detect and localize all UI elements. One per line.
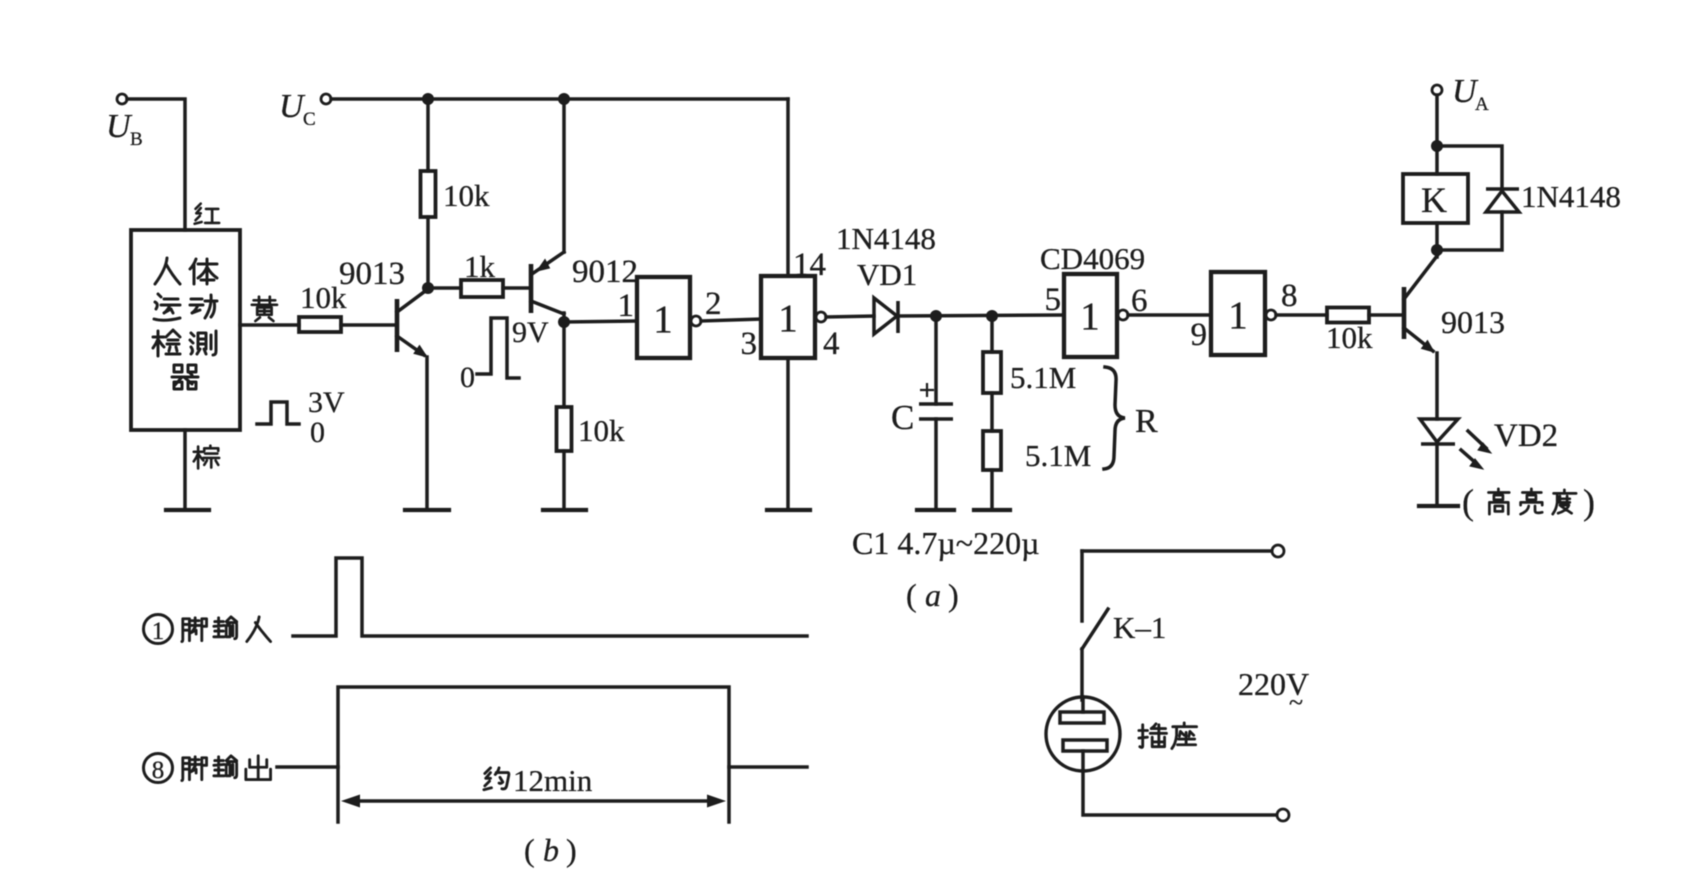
transistor Q2 9012 (531, 252, 638, 314)
svg-text:K–1: K–1 (1113, 610, 1166, 645)
svg-text:C1 4.7µ~220µ: C1 4.7µ~220µ (852, 525, 1040, 561)
svg-text:(: ( (1462, 482, 1474, 522)
svg-text:a: a (925, 577, 941, 613)
wire socket bottom (1083, 771, 1277, 815)
terminal UB (106, 94, 143, 150)
svg-text:1N4148: 1N4148 (1521, 179, 1621, 214)
svg-text:9012: 9012 (572, 254, 638, 290)
svg-text:VD2: VD2 (1494, 418, 1558, 454)
junction node R top (986, 310, 998, 322)
gate U1d output bubble (1266, 310, 1276, 320)
wire UA down to relay (1435, 95, 1439, 174)
svg-text:8: 8 (1281, 278, 1298, 314)
resistor R5a 5.1M (983, 352, 1001, 393)
junction Q2 collector (558, 316, 570, 328)
inverter gate U1b (761, 276, 815, 358)
svg-text:1: 1 (1080, 295, 1100, 338)
wire gate1 to gate2 (701, 319, 761, 321)
svg-text:3: 3 (741, 326, 758, 362)
ground under detector (166, 508, 209, 512)
svg-text:1: 1 (778, 297, 798, 340)
dimension extension lines (338, 767, 729, 822)
svg-text:~: ~ (1289, 688, 1303, 717)
wire Q2 collector node (562, 313, 566, 407)
wire Q3 emitter to LED (1435, 353, 1439, 419)
wire R5b to ground (990, 470, 994, 510)
wire gate3 to gate4 (1128, 313, 1211, 317)
svg-text:5.1M: 5.1M (1010, 360, 1076, 395)
wire node to R3 (428, 286, 461, 290)
wire R2 to collector node (426, 217, 430, 290)
relay coil K (1403, 174, 1468, 223)
capacitor C1 (891, 383, 953, 437)
waveform pin8 output (277, 687, 807, 767)
wire R4 to ground (562, 451, 566, 510)
wire R6 to Q3 base (1369, 313, 1402, 317)
wire gate2 pin7 to ground (786, 358, 790, 510)
svg-text:8: 8 (152, 757, 165, 784)
svg-text:10k: 10k (578, 413, 625, 448)
resistor R2 10k (collector load) (421, 171, 436, 217)
label pin1 input ①脚输入 (144, 615, 271, 646)
svg-text:10k: 10k (443, 178, 490, 213)
wire UC supply rail (331, 97, 788, 101)
svg-text:K: K (1421, 180, 1447, 220)
terminal top right (1272, 545, 1284, 557)
junction above relay (1431, 140, 1443, 152)
inverter gate U1d (1211, 272, 1265, 355)
ground under LED (1419, 504, 1458, 508)
svg-text:12min: 12min (513, 763, 593, 798)
flyback diode 1N4148 (1486, 179, 1621, 214)
caption (b) (524, 832, 577, 868)
svg-text:10k: 10k (1326, 320, 1373, 355)
transistor Q1 9013 (339, 256, 428, 357)
svg-text:1k: 1k (464, 249, 496, 284)
svg-text:1: 1 (618, 288, 635, 324)
svg-text:9V: 9V (512, 316, 549, 349)
transistor Q3 9013 (1404, 256, 1505, 352)
wire R1 to Q1 base (341, 323, 395, 327)
pulse symbol 3V input (257, 386, 345, 449)
wire LED to ground (1435, 444, 1439, 506)
svg-text:0: 0 (460, 361, 475, 394)
LED VD2 (1420, 418, 1558, 469)
wire to switch (1080, 551, 1084, 621)
svg-text:5: 5 (1045, 282, 1062, 318)
resistor R3 1k (461, 280, 503, 297)
svg-text:0: 0 (310, 416, 325, 449)
junction rail-Q2 emitter (558, 93, 570, 105)
brace R group (1104, 367, 1125, 469)
svg-text:14: 14 (793, 247, 826, 283)
resistor R5b 5.1M (983, 431, 1001, 470)
svg-text:(: ( (906, 577, 917, 613)
svg-text:(: ( (524, 832, 535, 868)
ground under gate U1b (767, 508, 810, 512)
svg-text:A: A (1475, 94, 1489, 115)
junction node C top (930, 310, 942, 322)
svg-text:): ) (1583, 482, 1595, 522)
ground under C1 (917, 508, 954, 512)
detector box 人体运动检测器 (131, 230, 240, 430)
resistor R1 10k (base of left 9013) (299, 317, 341, 332)
socket 插座 (1046, 697, 1197, 771)
svg-text:U: U (279, 88, 306, 125)
wire socket top (1082, 549, 1272, 553)
svg-text:1: 1 (653, 298, 673, 341)
svg-text:4: 4 (823, 326, 840, 362)
wire R3 to Q2 base (503, 286, 529, 290)
svg-text:9013: 9013 (1441, 304, 1505, 340)
inverter gate U1a (637, 277, 690, 358)
wire Q1 emitter to ground (425, 357, 429, 510)
wire node to gate1 input pin1 (564, 321, 637, 322)
svg-text:): ) (948, 577, 959, 613)
dimension arrow 约12min (341, 763, 726, 808)
waveform pin1 input (293, 558, 807, 636)
wire switch to socket (1080, 649, 1084, 700)
svg-text:U: U (106, 108, 133, 145)
junction below relay (1431, 244, 1443, 256)
ground under R4 (543, 508, 586, 512)
label 高亮度 (1462, 482, 1595, 522)
wire VD1 to node C (898, 315, 1064, 316)
svg-text:C: C (303, 109, 316, 130)
svg-text:b: b (543, 832, 559, 868)
label yellow wire 黄 (252, 297, 277, 321)
svg-text:9: 9 (1191, 317, 1208, 353)
wire pin14 to rail (786, 99, 790, 276)
inverter gate U1c (1064, 274, 1117, 357)
terminal bottom right (1277, 809, 1289, 821)
wire top to flyback diode (1437, 146, 1502, 190)
svg-text:1: 1 (152, 618, 165, 645)
wire rail to R2 (426, 99, 430, 171)
svg-text:CD4069: CD4069 (1040, 241, 1145, 276)
caption (a) (906, 577, 959, 613)
svg-text:3V: 3V (308, 386, 345, 419)
ground under Q1 (405, 508, 449, 512)
gate U1b output bubble (816, 312, 826, 322)
wire relay to collector (1435, 223, 1439, 257)
junction rail-R2 (422, 93, 434, 105)
resistor R4 10k (collector pulldown) (557, 407, 572, 451)
svg-text:R: R (1135, 403, 1158, 440)
ground under R5b (974, 508, 1010, 512)
svg-text:1: 1 (1228, 294, 1248, 337)
wire diode bottom to lower junction (1437, 212, 1502, 250)
svg-text:1N4148: 1N4148 (836, 221, 936, 256)
gate U1a output bubble (691, 316, 701, 326)
pulse symbol 9V at Q2 (460, 316, 549, 394)
resistor R6 10k (base of right 9013) (1327, 308, 1369, 323)
label red wire 红 (195, 204, 220, 224)
wire detector box to ground (183, 430, 187, 510)
svg-text:C: C (891, 398, 914, 437)
label brown wire 棕 (194, 446, 219, 469)
switch K-1 (1082, 609, 1108, 649)
terminal UC (279, 88, 331, 130)
label pin8 output ⑧脚输出 (144, 754, 271, 785)
terminal UA (1432, 73, 1489, 115)
svg-text:VD1: VD1 (857, 257, 917, 292)
wire node to capacitor C1 (934, 316, 938, 404)
svg-text:5.1M: 5.1M (1025, 438, 1091, 473)
diode VD1 1N4148 (836, 221, 936, 334)
svg-text:B: B (130, 129, 143, 150)
wire C1 to ground (934, 419, 938, 510)
junction collector node (422, 282, 434, 294)
wire UB to detector box (127, 99, 185, 230)
gate U1c output bubble (1118, 310, 1128, 320)
wire node to R5a (990, 316, 994, 352)
wire box to R1 (240, 323, 299, 327)
wire Q2 emitter to rail (562, 99, 566, 252)
svg-text:): ) (566, 832, 577, 868)
svg-text:9013: 9013 (339, 256, 405, 292)
wire R5a to R5b (990, 393, 994, 431)
wire bubble to VD1 (826, 316, 874, 317)
wire bubble to R6 (1276, 313, 1327, 317)
svg-text:2: 2 (705, 286, 722, 322)
